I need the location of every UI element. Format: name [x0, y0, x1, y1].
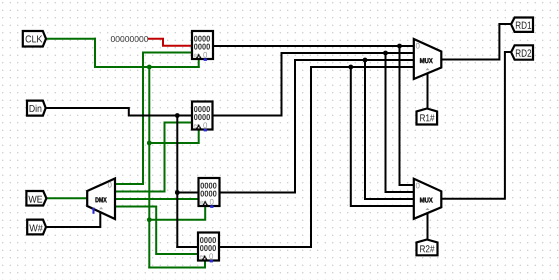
wire Din to reg2 D — [45, 108, 192, 116]
text reg R3 zero label — [210, 199, 214, 205]
text label DMX — [96, 197, 107, 202]
tunnel RD2 — [511, 45, 533, 59]
text reg R4 en label — [200, 255, 206, 258]
tunnel WE — [26, 191, 46, 206]
text label MUX U1 — [420, 58, 433, 63]
wire DMX out0 to reg1 enable — [115, 53, 192, 185]
tunnel RD1 — [511, 18, 533, 32]
wire clock bus vertical V2 upper — [148, 67, 150, 143]
wire Din bus vertical — [176, 116, 178, 248]
node bus junction in2 — [363, 58, 368, 63]
text label RD2 — [516, 49, 531, 56]
wire clock bus vertical V2 middle — [148, 143, 150, 220]
tunnel W# — [27, 220, 46, 235]
tunnel R2# — [417, 240, 438, 256]
wire clock bus vertical V2 lower — [148, 220, 150, 268]
wire W# to DMX select — [46, 212, 100, 227]
wire bus drop to MUX2 in1 — [386, 53, 414, 192]
register R4 — [198, 233, 219, 263]
wire reg3 Q to MUX1 in2 — [220, 60, 414, 193]
wire bus drop to MUX2 in0 — [400, 46, 414, 185]
text reg R4 value row2 — [200, 245, 216, 251]
wire CLK horizontal to reg1 clock — [95, 66, 199, 68]
demux DMX — [87, 179, 115, 220]
text reg R1 zero label — [203, 52, 207, 58]
text constant value 00000000 — [111, 36, 148, 42]
wire MUX2 output to RD2 — [441, 52, 511, 199]
mux U1 (MUX top) — [414, 39, 442, 79]
wire reg2 clock branch — [149, 129, 198, 144]
tunnel CLK — [23, 31, 46, 47]
node bus junction in0 — [397, 44, 402, 49]
wire constant to reg1 D (error/red) — [149, 39, 192, 46]
text label RD1 — [516, 22, 531, 29]
wire MUX1 select to R1# — [427, 73, 429, 109]
wire reg4 Q to MUX1 in3 — [219, 67, 414, 247]
wire bus drop to MUX2 in3 — [351, 67, 414, 206]
text label R1# — [420, 114, 434, 121]
tunnel R1# — [417, 109, 438, 125]
text label W# — [29, 225, 43, 232]
wire CLK horizontal from pin — [46, 38, 95, 40]
wire bus drop to MUX2 in2 — [365, 60, 414, 199]
register R1 — [192, 31, 213, 61]
register R3 — [199, 178, 220, 208]
text reg R1 value row2 — [194, 44, 210, 50]
wire Din branch to reg4 D — [177, 246, 198, 248]
text reg R4 zero label — [209, 253, 213, 259]
text label Din — [30, 105, 42, 112]
text MUX U1 sel zero — [416, 43, 420, 49]
wire MUX2 select to R2# — [427, 213, 429, 240]
register R2 — [192, 102, 213, 132]
wire reg1 clock stub up — [198, 58, 200, 67]
text reg R3 value row2 — [201, 191, 217, 197]
wire reg2 Q to MUX1 in1 — [213, 53, 414, 116]
text reg R2 value row1 — [194, 106, 210, 112]
node clock junction reg3 branch — [147, 217, 152, 222]
text MUX U2 sel zero — [416, 183, 420, 189]
text reg R3 value row1 — [201, 183, 217, 189]
text reg R1 value row1 — [194, 36, 210, 42]
text reg R4 value row1 — [200, 237, 216, 243]
wire DMX out2 to reg3 enable — [115, 198, 199, 200]
text reg R3 en label — [200, 201, 206, 204]
node bus junction in3 — [348, 65, 353, 70]
wire Din branch to reg3 D — [177, 192, 198, 194]
text label WE — [28, 196, 42, 203]
text reg R2 en label — [194, 124, 200, 127]
node Din junction reg2 — [175, 113, 180, 118]
wire reg3 clock branch — [149, 206, 205, 220]
text label R2# — [420, 245, 434, 252]
text DMX sel zero — [108, 182, 112, 188]
wire DMX out3 to reg4 enable — [115, 207, 198, 255]
wire reg4 clock branch — [149, 260, 205, 268]
wire CLK vertical down — [94, 39, 96, 67]
text reg R2 zero label — [203, 122, 207, 128]
mux U2 (MUX bottom) — [414, 179, 442, 219]
tunnel Din — [27, 101, 46, 116]
text reg R1 en label — [194, 54, 200, 57]
text reg R2 value row2 — [194, 114, 210, 120]
node Din junction reg3 — [175, 190, 180, 195]
node clock junction at CLK bus top — [147, 65, 152, 70]
wire DMX out1 to reg2 enable — [115, 123, 192, 192]
text label MUX U2 — [420, 198, 433, 203]
wire reg1 Q to MUX1 in0 — [213, 45, 414, 47]
wire MUX1 output to RD1 — [441, 24, 511, 60]
node clock junction reg2 branch — [147, 141, 152, 146]
wire WE to DMX input — [46, 197, 87, 199]
text label CLK — [26, 35, 43, 42]
node bus junction in1 — [383, 51, 388, 56]
